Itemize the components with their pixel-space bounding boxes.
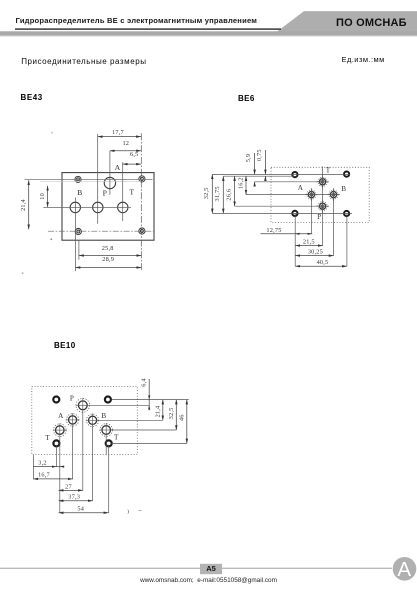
dimension 17.7 xyxy=(98,136,141,138)
bolt hole bottom-right xyxy=(139,228,145,234)
svg-text:40,5: 40,5 xyxy=(317,259,329,266)
port T circle xyxy=(118,202,128,212)
svg-text:54: 54 xyxy=(77,506,84,513)
dimension 32.5 vertical xyxy=(175,400,177,430)
extension T1 below xyxy=(59,437,61,513)
dimension 25.8 xyxy=(79,255,141,257)
dimension 21.4 vertical xyxy=(28,180,30,229)
footer rule line xyxy=(0,568,392,569)
ref row B right xyxy=(97,419,163,421)
crosshair T1 xyxy=(53,423,67,437)
header underline xyxy=(15,28,281,29)
svg-text:32,5: 32,5 xyxy=(203,187,210,199)
bolt ring bottom-left xyxy=(53,440,59,446)
svg-text:5,9: 5,9 xyxy=(245,154,252,162)
dimension 26.6 vertical xyxy=(234,176,236,206)
dimension 46 vertical xyxy=(186,400,188,444)
crosshair T be6 xyxy=(316,175,329,188)
footer graphics xyxy=(0,549,417,589)
svg-text:31,75: 31,75 xyxy=(214,186,221,201)
column B xyxy=(333,190,335,256)
crosshair P be6 xyxy=(316,200,329,213)
extension line 28.9 left inner xyxy=(78,240,80,260)
crosshair A be6 xyxy=(305,188,318,201)
port B circle xyxy=(86,414,98,426)
svg-text:3,2: 3,2 xyxy=(38,459,46,466)
port A circle xyxy=(66,414,78,426)
column bolt right xyxy=(346,214,348,267)
centerline port row xyxy=(43,206,131,208)
svg-text:T: T xyxy=(114,434,119,442)
svg-text:27: 27 xyxy=(65,483,72,490)
footer corner circle xyxy=(393,557,417,581)
extension body left below xyxy=(32,455,34,479)
footer A5 box xyxy=(200,564,222,574)
dimension 30.25 xyxy=(295,255,333,257)
svg-text:12: 12 xyxy=(122,140,129,147)
bolt hole bottom-left xyxy=(75,228,81,234)
svg-text:10: 10 xyxy=(39,193,46,200)
centerline port P column xyxy=(97,134,99,224)
svg-text:28,9: 28,9 xyxy=(102,256,114,263)
scan speck 3 xyxy=(50,238,52,240)
dimension 3.2 xyxy=(33,466,64,468)
svg-text:16,7: 16,7 xyxy=(38,472,50,479)
extension P below xyxy=(82,412,84,490)
section label BE10 xyxy=(54,341,76,350)
crosshair B be6 xyxy=(327,188,340,201)
svg-text:P: P xyxy=(103,188,108,197)
header gray band xyxy=(0,31,417,35)
port T circle xyxy=(318,177,327,186)
dimension 28.9 xyxy=(76,267,142,269)
bolt ring top-left xyxy=(292,172,297,177)
port P circle xyxy=(318,202,327,211)
ref row bottom bolts right xyxy=(111,442,187,444)
extension bolt BR below xyxy=(108,446,110,513)
scan speck 1 xyxy=(51,132,53,134)
header brand text xyxy=(336,17,407,29)
dimension 0.75 tails xyxy=(264,150,266,181)
column A xyxy=(310,190,312,234)
port A circle xyxy=(307,190,316,199)
svg-text:21,4: 21,4 xyxy=(20,198,27,210)
ref row bottom bolts xyxy=(212,212,352,214)
svg-text:26,6: 26,6 xyxy=(225,189,232,201)
bolt hole top-left xyxy=(75,176,81,182)
bolt ring top-right xyxy=(105,397,111,403)
ref row top bolts right xyxy=(112,399,189,401)
dimension 12.75 xyxy=(261,233,313,235)
svg-text:6,4: 6,4 xyxy=(140,378,147,387)
subtitle left xyxy=(21,57,146,66)
column T P xyxy=(322,167,324,246)
svg-text:6,5: 6,5 xyxy=(130,151,138,158)
dimension 40.5 xyxy=(295,265,347,267)
header gray banner polygon xyxy=(277,11,417,32)
port T1 circle xyxy=(54,424,67,437)
centerline top bolt row xyxy=(25,178,153,180)
port B circle xyxy=(329,190,338,199)
section label BE6 xyxy=(238,94,255,103)
svg-text:A: A xyxy=(298,184,304,192)
footer A5 text xyxy=(200,564,222,573)
port P circle xyxy=(93,202,103,212)
bolt ring bottom-right xyxy=(344,211,349,216)
body BE6 dotted xyxy=(271,167,369,222)
dimension 27 xyxy=(59,489,83,491)
column bolt left xyxy=(294,213,296,266)
extension bolt TL below xyxy=(55,446,57,467)
body BE10 dotted xyxy=(32,386,138,454)
ref row A B xyxy=(246,194,340,196)
subtitle right units xyxy=(342,55,385,64)
dimension 6.5 xyxy=(123,163,141,165)
svg-text:A: A xyxy=(58,412,64,420)
svg-text:16,2: 16,2 xyxy=(237,177,244,189)
extension T2 below xyxy=(105,437,107,455)
svg-text:12,75: 12,75 xyxy=(266,227,281,234)
footer email text xyxy=(0,577,417,584)
dimension 6.4 vertical xyxy=(148,379,150,410)
header graphics xyxy=(0,0,417,46)
dimension 37.3 xyxy=(59,500,93,502)
dimension 32.5 vertical xyxy=(211,174,213,213)
crosshair B xyxy=(86,414,100,428)
ref row P xyxy=(235,205,329,207)
bolt hole top-right xyxy=(139,176,145,182)
svg-text:B: B xyxy=(101,412,106,420)
svg-text:32,5: 32,5 xyxy=(168,407,175,419)
svg-text:30,25: 30,25 xyxy=(308,249,323,256)
section label BE43 xyxy=(21,93,43,102)
svg-text:37,3: 37,3 xyxy=(68,494,80,501)
dimension 54 xyxy=(59,512,109,514)
dimension 16.7 xyxy=(33,478,72,480)
body BE43 xyxy=(62,173,154,241)
header title text xyxy=(16,16,258,25)
scan speck 2 xyxy=(22,272,24,274)
ref row T2 right xyxy=(111,429,176,431)
bolt ring top-right xyxy=(344,172,349,177)
port B circle xyxy=(70,202,80,212)
svg-text:): ) xyxy=(127,508,129,515)
extension A below xyxy=(72,427,74,480)
dimension 21.5 xyxy=(295,245,322,247)
dimension 12 xyxy=(110,150,141,152)
bolt ring bottom-left xyxy=(292,211,297,216)
svg-text:0,75: 0,75 xyxy=(256,149,263,161)
svg-text:21,4: 21,4 xyxy=(155,405,162,417)
dimension 31.75 vertical xyxy=(222,176,224,213)
dimension 21.4 vertical xyxy=(162,400,164,421)
svg-text:T: T xyxy=(129,188,134,197)
port P circle xyxy=(76,398,90,412)
svg-text:P: P xyxy=(317,213,321,221)
dimension 5.9 tails xyxy=(254,153,256,187)
centerline port T column xyxy=(122,162,124,221)
dimension 16.2 vertical xyxy=(245,176,247,194)
bolt ring top-left xyxy=(53,397,59,403)
svg-text:17,7: 17,7 xyxy=(112,129,124,136)
centerline bottom bolt row dash-dot xyxy=(48,230,154,232)
centerline port B column xyxy=(74,198,76,272)
bolt ring bottom-right xyxy=(106,440,112,446)
crosshair T2 xyxy=(99,423,113,437)
ref row P right xyxy=(90,404,150,406)
svg-text:P: P xyxy=(70,394,74,402)
port T2 circle xyxy=(100,424,113,437)
extension B below xyxy=(92,427,94,501)
crosshair P xyxy=(76,398,90,412)
ref row offset 0.75 xyxy=(223,175,294,177)
port A circle xyxy=(104,177,115,188)
centerline right bolt column dash-dot xyxy=(140,133,142,271)
svg-text:46: 46 xyxy=(179,414,186,421)
dimension 10 vertical xyxy=(47,186,49,207)
centerline echo xyxy=(40,180,141,182)
svg-text:B: B xyxy=(341,185,346,193)
svg-text:B: B xyxy=(77,188,82,197)
ref row top bolts xyxy=(212,173,349,175)
crosshair A xyxy=(66,413,80,427)
svg-text:21,5: 21,5 xyxy=(303,239,315,246)
scan mark dash xyxy=(139,510,142,512)
svg-text:25,8: 25,8 xyxy=(102,245,114,252)
svg-text:A: A xyxy=(115,163,121,172)
centerline port A column xyxy=(109,151,111,195)
svg-text:T: T xyxy=(45,434,50,442)
ref row T xyxy=(255,181,329,183)
svg-text:T: T xyxy=(326,167,331,175)
